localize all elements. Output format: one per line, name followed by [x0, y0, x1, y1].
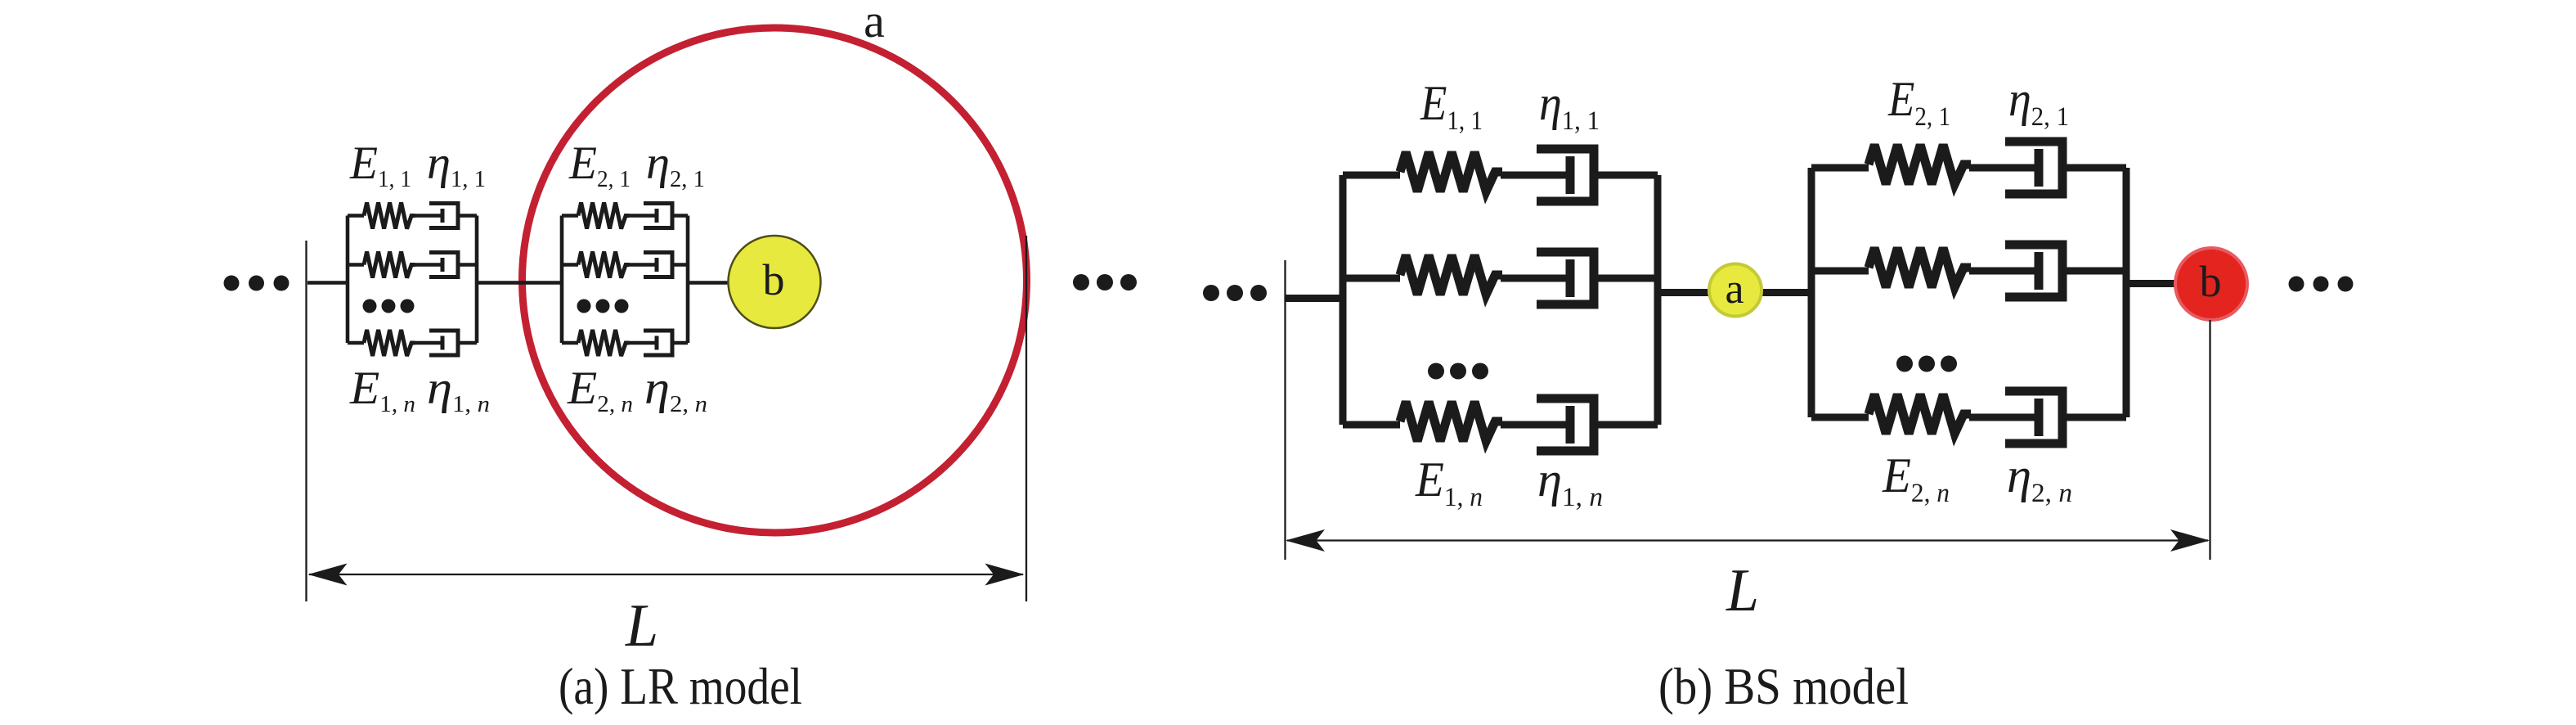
red circle a (LR)	[523, 28, 1027, 533]
wire damper to rail η1,1 (BS)	[1594, 172, 1658, 179]
wire: entry to block 1 (BS)	[1286, 295, 1344, 302]
spring E1,n (BS)	[1400, 402, 1502, 441]
damper η2,1 (BS)	[1969, 142, 2062, 194]
ellipsis dots inside block 2 (BS)	[1896, 356, 1957, 372]
damper η1,n (BS)	[1501, 399, 1594, 451]
left terminal dots (LR)	[224, 276, 289, 291]
spring E2,1 (BS)	[1869, 145, 1971, 184]
damper η2,2 (BS)	[1969, 245, 2062, 297]
svg-text:b: b	[2200, 257, 2222, 306]
dimension extension line right (BS)	[2209, 320, 2210, 560]
ellipsis dots inside block 1 (BS)	[1428, 363, 1488, 380]
svg-text:L: L	[625, 592, 658, 660]
left rail block 1 (LR)	[346, 216, 350, 344]
wire damper to rail η1,n (LR)	[458, 341, 477, 345]
left rail block 1 (BS)	[1340, 175, 1347, 425]
dimension extension line left (LR)	[305, 241, 307, 601]
wire rail to spring E1,2 (BS)	[1343, 275, 1400, 282]
right terminal dots (LR)	[1073, 274, 1137, 290]
spring E1,n (LR)	[364, 330, 415, 356]
arrowhead left (BS)	[1286, 529, 1325, 552]
wire rail to spring E1,n (LR)	[348, 341, 364, 345]
dimension line L (BS)	[1287, 539, 2208, 541]
wire damper to rail η1,2 (LR)	[458, 263, 477, 267]
node a (BS, yellow circle)	[1709, 264, 1761, 317]
svg-text:L: L	[1726, 557, 1759, 624]
wire: block 2 to node b (LR)	[688, 281, 730, 285]
spring E2,2 (LR)	[578, 252, 630, 278]
wire rail to spring E1,1 (LR)	[348, 214, 364, 218]
left rail block 2 (BS)	[1808, 168, 1815, 417]
spring E1,2 (BS)	[1400, 255, 1502, 295]
wire damper to rail η2,n (BS)	[2062, 414, 2126, 421]
wire: entry to block 1 (LR)	[307, 281, 348, 285]
svg-text:a: a	[864, 0, 885, 47]
spring E2,1 (LR)	[578, 203, 630, 229]
svg-text:(b) BS model: (b) BS model	[1658, 657, 1909, 715]
wire rail to spring E2,2 (BS)	[1811, 268, 1869, 275]
left terminal dots (BS)	[1203, 285, 1267, 301]
wire rail to spring E2,n (BS)	[1811, 414, 1869, 421]
damper η1,1 (BS)	[1501, 149, 1594, 201]
svg-text:(a) LR model: (a) LR model	[559, 657, 802, 715]
node b (LR, yellow circle)	[729, 236, 821, 328]
svg-text:b: b	[763, 255, 785, 304]
damper η2,n (LR)	[629, 331, 672, 355]
damper η1,2 (LR)	[415, 253, 458, 277]
right rail block 1 (BS)	[1654, 175, 1662, 425]
wire: block 1 to node a (BS)	[1658, 289, 1710, 296]
svg-text:a: a	[1725, 266, 1744, 313]
wire damper to rail η2,1 (BS)	[2062, 164, 2126, 172]
wire rail to spring E1,1 (BS)	[1343, 172, 1400, 179]
wire rail to spring E2,1 (LR)	[562, 214, 578, 218]
wire damper to rail η2,2 (LR)	[672, 263, 688, 267]
wire rail to spring E2,1 (BS)	[1811, 164, 1869, 172]
wire damper to rail η1,2 (BS)	[1594, 275, 1658, 282]
spring E2,n (BS)	[1869, 394, 1971, 434]
dimension extension line left (BS)	[1284, 260, 1286, 560]
wire damper to rail η2,1 (LR)	[672, 214, 688, 218]
arrowhead right (BS)	[2170, 529, 2210, 552]
wire rail to spring E2,n (LR)	[562, 341, 578, 345]
spring E1,2 (LR)	[364, 252, 415, 278]
arrowhead right (LR)	[985, 564, 1025, 586]
right terminal dots (BS)	[2289, 277, 2354, 292]
right rail block 1 (LR)	[475, 216, 479, 344]
wire rail to spring E2,2 (LR)	[562, 263, 578, 267]
wire damper to rail η2,2 (BS)	[2062, 268, 2126, 275]
node b (BS, red circle)	[2175, 248, 2247, 320]
damper η2,2 (LR)	[629, 253, 672, 277]
left rail block 2 (LR)	[560, 216, 564, 344]
damper η2,n (BS)	[1969, 391, 2062, 444]
ellipsis dots inside block 2 (LR)	[577, 299, 629, 313]
dimension line L (LR)	[309, 574, 1023, 575]
dimension extension line right (LR)	[1025, 236, 1027, 601]
wire damper to rail η1,n (BS)	[1594, 421, 1658, 429]
damper η1,1 (LR)	[415, 204, 458, 228]
spring E1,1 (BS)	[1400, 152, 1502, 191]
ellipsis dots inside block 1 (LR)	[363, 299, 415, 313]
wire rail to spring E1,n (BS)	[1343, 421, 1400, 429]
spring E1,1 (LR)	[364, 203, 415, 229]
wire: block 2 to node b (BS)	[2126, 280, 2176, 287]
spring E2,2 (BS)	[1869, 248, 1971, 287]
wire damper to rail η2,n (LR)	[672, 341, 688, 345]
damper η1,n (LR)	[415, 331, 458, 355]
damper η2,1 (LR)	[629, 204, 672, 228]
right rail block 2 (BS)	[2123, 168, 2130, 417]
spring E2,n (LR)	[578, 330, 630, 356]
arrowhead left (LR)	[308, 564, 348, 586]
right rail block 2 (LR)	[686, 216, 690, 344]
wire: block 1 to block 2 (LR)	[477, 281, 562, 285]
damper η1,2 (BS)	[1501, 252, 1594, 304]
wire rail to spring E1,2 (LR)	[348, 263, 364, 267]
wire: node a to block 2 (BS)	[1761, 289, 1812, 296]
wire damper to rail η1,1 (LR)	[458, 214, 477, 218]
